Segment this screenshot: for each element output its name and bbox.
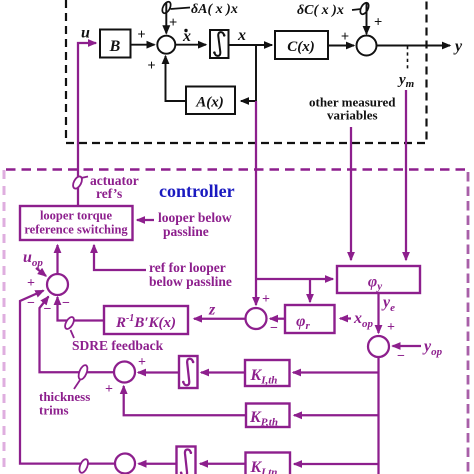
block C(x) — [275, 31, 328, 59]
wire x_op into phi_r — [340, 317, 351, 319]
svg-text:ye: ye — [381, 294, 395, 314]
controller dashed boundary right edge — [467, 172, 470, 474]
SDRE feedback break ellipse — [63, 316, 75, 338]
wire J5 output downward — [377, 357, 379, 474]
wire phi_y to J5 — [377, 293, 379, 333]
svg-text:uop: uop — [23, 249, 43, 269]
plant dashed boundary box — [66, 0, 427, 143]
wire J2 to output y — [377, 45, 451, 47]
integrator block tn — [177, 447, 196, 474]
svg-text:+: + — [27, 276, 35, 291]
svg-text:trims: trims — [39, 403, 69, 418]
svg-text:R-1B′K(x): R-1B′K(x) — [115, 313, 176, 331]
wire phi_r to J4 — [270, 318, 285, 320]
svg-text:B: B — [109, 38, 121, 55]
svg-text:x: x — [237, 27, 246, 44]
block phi_r — [285, 305, 335, 333]
wire B to summing junction J1 — [131, 44, 155, 46]
wire J6 output left to riser — [40, 297, 115, 373]
wire x node down into controller — [255, 101, 257, 279]
svg-text:reference switching: reference switching — [24, 223, 128, 237]
svg-text:+: + — [387, 320, 395, 335]
wire x feedback node down to A(x) — [241, 45, 256, 101]
svg-text:−: − — [62, 296, 70, 311]
wire branch into K_P,th — [294, 414, 379, 416]
wire K_I,tn to integrator tn — [200, 463, 246, 465]
svg-text:+: + — [169, 15, 177, 31]
wire u_op into J3 — [36, 268, 46, 276]
wire A(x) to J1 bottom — [166, 56, 187, 101]
wire SDRE feedback into J3 bottom — [58, 297, 105, 321]
svg-text:+: + — [341, 29, 349, 45]
wire x branch into phi_y left — [255, 278, 333, 280]
label ref for looper below passline — [149, 260, 232, 289]
wire x line into J4 top — [255, 279, 257, 305]
block B — [100, 30, 131, 58]
wire branch into K_I,tn — [294, 463, 379, 465]
svg-text:ref for looper: ref for looper — [149, 260, 226, 275]
svg-text:below passline: below passline — [149, 274, 232, 289]
summing junction J3 — [47, 274, 68, 295]
svg-text:−: − — [44, 302, 52, 317]
wire other measured variables to phi_y — [350, 127, 352, 260]
svg-text:SDRE feedback: SDRE feedback — [72, 338, 164, 353]
wire J7 output left to long riser — [20, 291, 115, 464]
wire branch into K_I,th — [293, 371, 379, 373]
wire dA(x)x into J1 top — [165, 2, 167, 33]
svg-text:y: y — [453, 38, 463, 55]
svg-text:KI,tn: KI,tn — [250, 459, 278, 474]
svg-text:u: u — [81, 25, 90, 42]
svg-text:ref’s: ref’s — [96, 186, 122, 201]
wire y_m to phi_y — [405, 90, 407, 260]
svg-text:C(x): C(x) — [287, 39, 315, 55]
summing junction J7 — [115, 454, 135, 474]
svg-text:+: + — [147, 58, 155, 74]
wire K_P,th into J6 bottom — [124, 386, 246, 415]
block phi_y — [337, 266, 420, 293]
block K_I,th — [245, 360, 290, 387]
block K_I,tn — [246, 453, 291, 474]
svg-text:z: z — [208, 302, 216, 319]
controller dashed boundary box — [6, 168, 466, 171]
wire J1 to integrator — [175, 44, 206, 46]
svg-text:+: + — [262, 292, 270, 307]
svg-text:yop: yop — [422, 338, 443, 358]
svg-text:KI,th: KI,th — [250, 367, 278, 387]
block K_P,th — [246, 404, 290, 429]
svg-text:φr: φr — [296, 313, 310, 332]
svg-text:passline: passline — [163, 224, 209, 239]
block looper torque reference switching — [20, 206, 133, 240]
svg-text:+: + — [137, 27, 145, 43]
tension trims break ellipse — [78, 458, 90, 474]
svg-text:controller: controller — [159, 181, 235, 201]
wire x branch into phi_r top — [309, 279, 311, 302]
wire z from J4 into R-1B'K(x) — [194, 318, 246, 320]
summing junction J6 — [114, 362, 135, 383]
wire ref for looper below passline into block bottom — [94, 245, 146, 270]
svg-text:+: + — [105, 382, 113, 397]
integrator block th — [179, 356, 198, 388]
thickness trims break ellipse — [74, 364, 89, 389]
wire integrator tn to J7 — [139, 463, 177, 465]
block A(x) — [186, 87, 235, 115]
svg-text:+: + — [138, 355, 146, 370]
label looper below passline — [158, 210, 232, 239]
svg-text:+: + — [374, 15, 382, 31]
wire u from controller up to block B — [78, 43, 96, 206]
svg-text:variables: variables — [327, 108, 378, 123]
svg-text:ym: ym — [397, 72, 415, 90]
wire y_op into J5 — [393, 345, 422, 347]
disturbance entry ellipse for dA(x)x — [161, 0, 190, 14]
wire K_I,th to integrator th — [201, 371, 245, 373]
svg-text:−: − — [397, 349, 405, 364]
svg-text:φy: φy — [368, 274, 382, 293]
svg-text:xop: xop — [353, 310, 374, 330]
wire dC(x)x into J2 top — [366, 3, 368, 34]
label other measured variables — [309, 95, 396, 123]
summing junction J4 — [246, 308, 267, 329]
svg-text:δC( x )x: δC( x )x — [297, 3, 344, 18]
label thickness trims — [39, 389, 90, 418]
controller dashed boundary left edge — [3, 170, 6, 474]
wire integrator th to J6 — [138, 371, 179, 373]
wire J3 to looper block — [56, 245, 58, 274]
svg-text:A(x): A(x) — [195, 95, 224, 111]
node xdot label — [182, 28, 191, 45]
block R-1B'K(x) — [104, 306, 188, 334]
svg-text:KP,th: KP,th — [249, 409, 278, 429]
actuator refs break ellipse — [71, 175, 88, 190]
label actuator refs — [90, 173, 139, 201]
wire looper below passline into block — [137, 219, 154, 221]
summing junction J2 — [357, 36, 377, 56]
svg-text:−: − — [270, 321, 278, 336]
svg-text:looper below: looper below — [158, 210, 232, 225]
disturbance entry ellipse for dC(x)x — [352, 1, 370, 15]
summing junction J5 — [368, 336, 389, 357]
svg-text:δA( x )x: δA( x )x — [191, 2, 238, 17]
wire C(x) to summing junction J2 — [328, 45, 354, 47]
integrator block (state) — [210, 30, 229, 58]
svg-text:looper torque: looper torque — [40, 209, 113, 223]
dashed measurement tap wire y_m — [407, 46, 409, 69]
wire integrator to C(x) — [229, 44, 273, 46]
summing junction J1 — [157, 36, 175, 54]
